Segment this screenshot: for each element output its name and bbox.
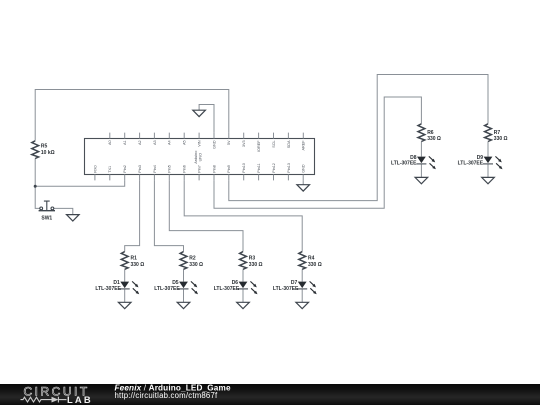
svg-text:R5: R5 xyxy=(41,144,48,150)
svg-text:A5: A5 xyxy=(183,140,187,145)
svg-text:10 kΩ: 10 kΩ xyxy=(41,150,55,156)
svg-text:LTL-307EE: LTL-307EE xyxy=(391,161,417,167)
svg-text:SW1: SW1 xyxy=(41,216,52,222)
svg-text:LTL-307EE: LTL-307EE xyxy=(95,286,121,292)
svg-text:Arduino: Arduino xyxy=(194,151,198,164)
svg-text:Pin2: Pin2 xyxy=(123,165,127,173)
svg-text:A1: A1 xyxy=(123,140,127,145)
svg-text:Pin8: Pin8 xyxy=(212,165,216,173)
svg-text:330 Ω: 330 Ω xyxy=(427,136,441,142)
svg-text:Pin9: Pin9 xyxy=(227,165,231,173)
svg-text:AREF: AREF xyxy=(302,140,306,151)
svg-text:LTL-307EE: LTL-307EE xyxy=(458,161,484,167)
svg-text:330 Ω: 330 Ω xyxy=(308,262,322,268)
svg-text:Pin7: Pin7 xyxy=(198,165,202,173)
svg-text:Pin13: Pin13 xyxy=(287,163,291,173)
svg-text:LTL-307EE: LTL-307EE xyxy=(154,286,180,292)
svg-text:330 Ω: 330 Ω xyxy=(249,262,263,268)
svg-text:SDA: SDA xyxy=(287,140,291,148)
svg-text:Pin4: Pin4 xyxy=(153,165,157,173)
svg-text:LTL-307EE: LTL-307EE xyxy=(214,286,240,292)
svg-text:A0: A0 xyxy=(108,140,112,145)
svg-text:http://circuitlab.com/ctm867f: http://circuitlab.com/ctm867f xyxy=(115,391,218,400)
svg-text:A3: A3 xyxy=(153,140,157,145)
svg-text:RX0: RX0 xyxy=(93,165,97,172)
svg-text:Pin3: Pin3 xyxy=(138,165,142,173)
svg-text:Pin10: Pin10 xyxy=(242,163,246,173)
svg-text:R6: R6 xyxy=(427,130,434,136)
svg-text:UNO: UNO xyxy=(198,153,202,161)
svg-text:VIN: VIN xyxy=(198,140,202,147)
svg-text:330 Ω: 330 Ω xyxy=(189,262,203,268)
svg-text:A2: A2 xyxy=(138,140,142,145)
svg-text:R4: R4 xyxy=(308,256,315,262)
svg-text:330 Ω: 330 Ω xyxy=(131,262,145,268)
svg-text:GND: GND xyxy=(212,140,216,149)
svg-text:Pin12: Pin12 xyxy=(272,163,276,173)
svg-text:A4: A4 xyxy=(168,140,172,145)
svg-text:GND: GND xyxy=(302,164,306,173)
svg-text:3V3: 3V3 xyxy=(242,140,246,147)
svg-text:Pin6: Pin6 xyxy=(183,165,187,173)
svg-text:R2: R2 xyxy=(189,256,196,262)
svg-text:TX1: TX1 xyxy=(108,166,112,173)
svg-text:LAB: LAB xyxy=(67,394,93,405)
svg-text:Pin5: Pin5 xyxy=(168,165,172,173)
svg-text:IOREF: IOREF xyxy=(257,140,261,152)
svg-text:LTL-307EE: LTL-307EE xyxy=(273,286,299,292)
svg-text:SCL: SCL xyxy=(272,140,276,147)
svg-text:R1: R1 xyxy=(131,256,138,262)
svg-text:330 Ω: 330 Ω xyxy=(494,136,508,142)
svg-text:Pin11: Pin11 xyxy=(257,163,261,172)
svg-text:5V: 5V xyxy=(227,140,231,145)
svg-text:R7: R7 xyxy=(494,130,501,136)
svg-text:R3: R3 xyxy=(249,256,256,262)
